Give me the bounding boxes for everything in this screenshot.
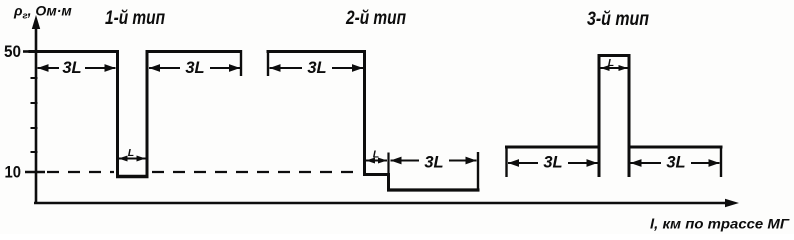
dim 3L arrow segment A right [85,67,116,69]
profile 2 shelf at 10 [363,173,390,176]
dim boundary tick type2 [387,153,389,175]
profile 3 pulse left wall [598,54,601,177]
profile 3 left boundary tick [505,146,507,178]
svg-text:3L: 3L [307,59,326,77]
profile 3 right boundary tick [720,146,722,178]
profile 2 top segment [267,50,367,53]
dim 3L arrow type3 left b [568,162,598,164]
dashed level 10 line right part [152,171,362,173]
profile 2 step down [387,173,390,192]
svg-text:1-й тип: 1-й тип [105,8,165,29]
svg-text:L: L [128,147,134,159]
dim 3L arrow segment B right [210,67,240,69]
dim 3L arrow type3 right a [631,162,662,164]
profile 1 notch right wall [146,50,149,178]
y tick 10 [25,171,45,173]
profile 1 notch left wall [116,50,119,178]
profile 1 top segment B [146,50,242,53]
svg-text:l, км по трассе МГ: l, км по трассе МГ [650,216,790,232]
dim 3L arrow type2 top right [332,67,363,69]
profile 1 top segment A [29,50,120,53]
dim 3L arrow segment A left [38,67,60,69]
svg-text:3L: 3L [185,59,204,77]
svg-text:10: 10 [5,163,22,182]
svg-text:3L: 3L [543,154,562,172]
svg-text:3L: 3L [62,59,81,77]
profile 3 right shoulder [628,146,723,149]
profile 3 pulse right wall [628,54,631,177]
profile 3 pulse top [598,54,631,57]
svg-text:L: L [373,149,379,161]
dim 3L arrow type2 lower left [391,160,420,162]
y tick 50 [23,50,36,53]
profile 2 right boundary [477,152,479,192]
y-axis [32,15,40,204]
dim L arrow notch [119,158,146,160]
profile 1 right boundary tick [240,50,242,76]
profile 2 main drop [363,50,366,176]
profile 3 left shoulder [505,146,600,149]
y minor ticks [31,78,38,152]
dim 3L arrow type2 top left [270,67,303,69]
dim 3L arrow type3 left a [508,162,538,164]
dim L arrow type2 [366,160,387,162]
svg-text:L: L [608,57,614,69]
dim 3L arrow type3 right b [691,162,720,164]
svg-text:3-й тип: 3-й тип [587,9,649,30]
profile 2 left boundary tick [267,50,269,76]
svg-text:ρг, Ом·м: ρг, Ом·м [13,3,72,22]
dashed level 10 line left part [47,171,114,173]
profile 1 notch bottom [116,175,149,179]
svg-text:3L: 3L [666,154,685,172]
x-axis [34,199,739,207]
profile 2 lower segment [387,188,480,191]
dim 3L arrow segment B left [149,67,180,69]
dim 3L arrow type2 lower right [449,160,477,162]
svg-text:2-й тип: 2-й тип [345,8,406,29]
dim L arrow type3 [601,67,628,69]
svg-text:50: 50 [4,42,21,61]
svg-text:3L: 3L [424,153,443,171]
